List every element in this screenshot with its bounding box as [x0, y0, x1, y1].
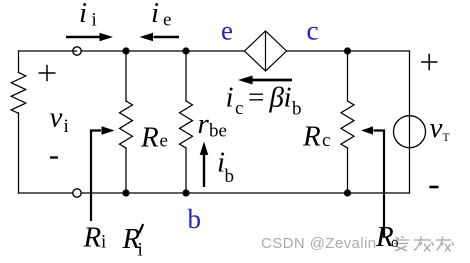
wire Re top: [125, 51, 127, 101]
label rbe: [198, 108, 227, 142]
current arrow ib: [200, 142, 209, 188]
current arrow ic (under diamond): [238, 76, 292, 85]
label Ri prime: [122, 223, 144, 261]
label ii: [79, 0, 97, 31]
input terminal bottom: [73, 189, 81, 197]
svg-text:e: e: [221, 16, 233, 46]
svg-text:i: i: [92, 10, 97, 31]
svg-text:i: i: [101, 232, 106, 253]
label Re: [140, 122, 168, 154]
wire Rc bottom: [347, 148, 349, 193]
plus sign left: [39, 65, 56, 82]
node dot Re top: [122, 47, 129, 54]
wire top right segment: [287, 50, 410, 52]
svg-text:b: b: [188, 204, 202, 234]
watermark CJK glyph 1: [393, 236, 409, 251]
label Rc: [302, 121, 330, 153]
node dot rbe bottom (b): [182, 189, 189, 196]
wire right vertical: [409, 51, 411, 193]
svg-text:e: e: [163, 10, 171, 31]
svg-text:i: i: [151, 0, 159, 29]
label ie: [151, 0, 171, 31]
wire left vertical lower: [18, 113, 20, 193]
watermark CJK glyph 3: [436, 237, 454, 252]
minus sign left: [50, 156, 58, 158]
svg-text:c: c: [322, 130, 330, 151]
wire bottom: [19, 192, 410, 194]
label ib: [217, 147, 234, 188]
svg-text:be: be: [209, 121, 227, 142]
watermark CJK glyph 2: [414, 237, 434, 252]
resistor vi-source zigzag: [11, 73, 26, 114]
svg-text:i: i: [284, 82, 292, 114]
svg-text:R: R: [140, 122, 159, 154]
svg-text:c: c: [235, 98, 243, 119]
svg-text:i: i: [138, 240, 143, 261]
svg-text:c: c: [307, 16, 319, 46]
svg-text:β: β: [269, 82, 285, 114]
resistor Rc: [341, 101, 354, 148]
label Ri: [83, 222, 107, 254]
terminal tick: [73, 50, 77, 52]
svg-text:e: e: [160, 131, 168, 152]
svg-text:v: v: [430, 112, 443, 144]
current arrow ii: [66, 33, 113, 42]
svg-text:v: v: [50, 102, 63, 134]
label vT: [430, 112, 450, 144]
input terminal top: [73, 47, 81, 55]
equation ic = beta ib: [226, 82, 302, 120]
svg-text:i: i: [79, 0, 87, 29]
svg-text:o: o: [391, 235, 399, 251]
wire rbe bottom: [185, 148, 187, 193]
label vi: [50, 102, 69, 138]
svg-text:T: T: [443, 132, 450, 144]
wire Rc top: [347, 51, 349, 101]
node dot Re bottom: [122, 189, 129, 196]
svg-text:b: b: [225, 166, 235, 187]
node dot Rc bottom: [344, 189, 351, 196]
Ro measurement arrow: [361, 126, 384, 237]
svg-text:R: R: [302, 121, 321, 153]
svg-text:b: b: [292, 99, 302, 120]
Ri measurement arrow: [91, 126, 115, 221]
label Ro: [375, 221, 399, 253]
minus sign right: [430, 186, 439, 189]
svg-text:i: i: [64, 116, 69, 137]
current arrow ie: [140, 33, 180, 42]
dependent current source diamond: [245, 31, 287, 71]
svg-text:CSDN @Zevalin: CSDN @Zevalin: [261, 235, 376, 252]
voltage source vT circle: [394, 116, 426, 148]
svg-text:r: r: [198, 108, 210, 140]
svg-text:i: i: [226, 82, 234, 114]
svg-text:=: =: [248, 82, 264, 114]
wire Re bottom: [125, 148, 127, 193]
wire left vertical upper: [18, 51, 20, 73]
wire top left segment: [19, 50, 245, 52]
wire rbe top: [185, 51, 187, 101]
svg-text:R: R: [83, 222, 102, 254]
plus sign right: [421, 54, 438, 71]
node dot Rc top (c): [344, 47, 351, 54]
node dot rbe top (e): [182, 47, 189, 54]
resistor rbe: [180, 101, 193, 148]
resistor Re: [120, 101, 133, 148]
